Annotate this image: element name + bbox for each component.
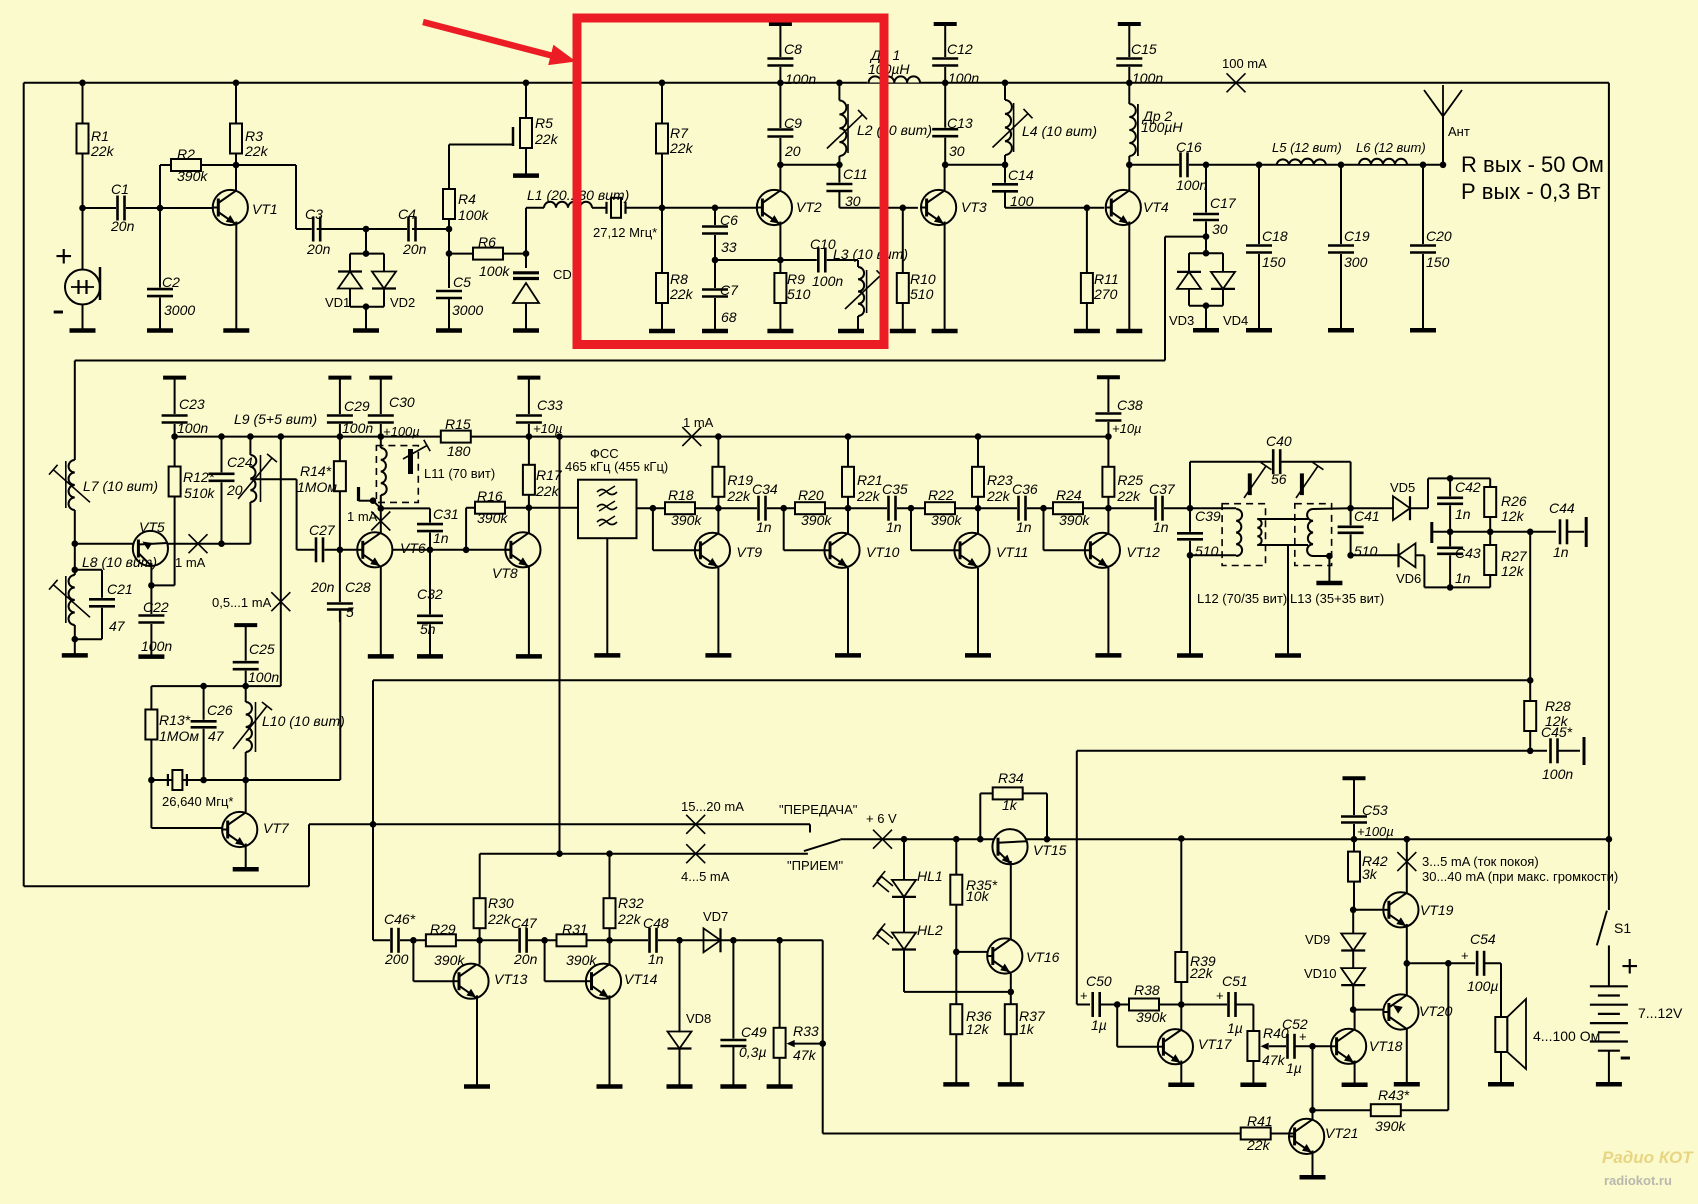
svg-text:HL1: HL1 <box>917 868 943 884</box>
svg-text:390k: 390k <box>671 512 702 528</box>
svg-text:15...20 mA: 15...20 mA <box>681 799 744 814</box>
svg-text:R34: R34 <box>998 770 1024 786</box>
svg-text:L10 (10 вит): L10 (10 вит) <box>262 713 345 729</box>
svg-text:22k: 22k <box>534 131 559 147</box>
svg-text:100µН: 100µН <box>868 61 910 77</box>
svg-text:465 кГц (455 кГц): 465 кГц (455 кГц) <box>565 459 668 474</box>
svg-text:C16: C16 <box>1176 139 1202 155</box>
svg-text:C17: C17 <box>1210 195 1237 211</box>
svg-text:100k: 100k <box>458 207 489 223</box>
svg-text:R6: R6 <box>478 234 496 250</box>
svg-text:L9 (5+5 вит): L9 (5+5 вит) <box>234 411 317 427</box>
svg-text:R7: R7 <box>670 125 689 141</box>
svg-text:R16: R16 <box>477 488 503 504</box>
svg-text:R9: R9 <box>787 271 805 287</box>
svg-text:100n: 100n <box>1132 70 1163 86</box>
svg-text:3000: 3000 <box>164 302 195 318</box>
svg-text:180: 180 <box>447 443 471 459</box>
svg-text:C47: C47 <box>511 915 538 931</box>
svg-text:VD5: VD5 <box>1390 480 1415 495</box>
svg-text:R1: R1 <box>91 128 109 144</box>
svg-text:R11: R11 <box>1094 271 1119 287</box>
svg-text:C3: C3 <box>305 206 323 222</box>
svg-text:390k: 390k <box>566 952 597 968</box>
svg-text:R33: R33 <box>793 1023 819 1039</box>
svg-text:+10µ: +10µ <box>533 421 563 436</box>
svg-text:3000: 3000 <box>452 302 483 318</box>
svg-text:R41: R41 <box>1247 1113 1273 1129</box>
svg-text:100n: 100n <box>342 420 373 436</box>
svg-text:+: + <box>1461 948 1469 963</box>
svg-text:C33: C33 <box>537 397 563 413</box>
svg-text:C6: C6 <box>720 212 738 228</box>
svg-text:20n: 20n <box>402 241 427 257</box>
svg-text:VD6: VD6 <box>1396 571 1421 586</box>
svg-text:C40: C40 <box>1266 433 1292 449</box>
svg-text:+: + <box>1080 988 1088 1003</box>
svg-text:R43*: R43* <box>1378 1087 1410 1103</box>
svg-text:R24: R24 <box>1056 487 1082 503</box>
svg-text:L4 (10 вит): L4 (10 вит) <box>1022 123 1097 139</box>
svg-text:27,12 Мгц*: 27,12 Мгц* <box>593 225 657 240</box>
svg-text:-: - <box>1619 1035 1632 1077</box>
svg-text:510: 510 <box>1354 543 1378 559</box>
svg-text:22k: 22k <box>535 483 560 499</box>
svg-text:VD8: VD8 <box>686 1011 711 1026</box>
svg-text:C7: C7 <box>720 282 739 298</box>
svg-text:390k: 390k <box>1375 1118 1406 1134</box>
svg-text:R5: R5 <box>535 115 553 131</box>
svg-text:+: + <box>55 240 73 273</box>
svg-text:390k: 390k <box>801 512 832 528</box>
svg-text:VT21: VT21 <box>1325 1125 1358 1141</box>
svg-text:0,5...1 mA: 0,5...1 mA <box>212 595 272 610</box>
svg-text:20n: 20n <box>310 579 335 595</box>
svg-text:22k: 22k <box>487 911 512 927</box>
svg-text:22k: 22k <box>1246 1137 1271 1153</box>
svg-text:12k: 12k <box>966 1021 990 1037</box>
svg-text:C46*: C46* <box>384 911 416 927</box>
svg-text:VT9: VT9 <box>736 544 762 560</box>
svg-text:C23: C23 <box>179 396 205 412</box>
svg-text:VD3: VD3 <box>1169 313 1194 328</box>
svg-text:5n: 5n <box>420 621 436 637</box>
svg-text:20: 20 <box>784 143 801 159</box>
svg-text:C41: C41 <box>1354 508 1380 524</box>
svg-text:radiokot.ru: radiokot.ru <box>1604 1173 1672 1188</box>
svg-text:R10: R10 <box>910 271 936 287</box>
svg-text:20n: 20n <box>513 951 538 967</box>
svg-text:VT2: VT2 <box>796 199 822 215</box>
svg-text:R19: R19 <box>727 472 753 488</box>
svg-text:L6 (12 вит): L6 (12 вит) <box>1356 140 1426 155</box>
svg-text:R21: R21 <box>857 472 883 488</box>
svg-text:R12*: R12* <box>183 469 215 485</box>
svg-text:20n: 20n <box>110 218 135 234</box>
svg-text:R22: R22 <box>928 487 954 503</box>
svg-text:VT10: VT10 <box>866 544 900 560</box>
svg-text:20n: 20n <box>306 241 331 257</box>
svg-text:22k: 22k <box>856 488 881 504</box>
svg-text:22k: 22k <box>1116 488 1141 504</box>
svg-text:VT7: VT7 <box>263 820 290 836</box>
svg-text:C11: C11 <box>843 166 868 182</box>
svg-text:Ант: Ант <box>1448 124 1470 139</box>
svg-text:26,640 Мгц*: 26,640 Мгц* <box>162 794 233 809</box>
svg-text:C8: C8 <box>784 41 802 57</box>
svg-text:L12 (70/35 вит): L12 (70/35 вит) <box>1197 591 1287 606</box>
svg-text:C19: C19 <box>1344 228 1370 244</box>
svg-text:1n: 1n <box>756 519 772 535</box>
svg-text:C31: C31 <box>433 506 459 522</box>
svg-text:1n: 1n <box>1553 544 1569 560</box>
svg-text:C20: C20 <box>1426 228 1452 244</box>
svg-text:C54: C54 <box>1470 931 1496 947</box>
svg-text:1µ: 1µ <box>1227 1020 1243 1036</box>
svg-text:1n: 1n <box>1016 519 1032 535</box>
svg-text:22k: 22k <box>726 488 751 504</box>
svg-text:L3 (10 вит): L3 (10 вит) <box>833 246 908 262</box>
svg-text:VT17: VT17 <box>1198 1036 1233 1052</box>
svg-text:C36: C36 <box>1012 481 1038 497</box>
svg-text:Радио КОТ: Радио КОТ <box>1602 1148 1694 1167</box>
svg-text:1 mA: 1 mA <box>347 509 378 524</box>
svg-text:1k: 1k <box>1019 1021 1035 1037</box>
svg-text:390k: 390k <box>477 510 508 526</box>
svg-text:22k: 22k <box>986 488 1011 504</box>
svg-text:100n: 100n <box>785 71 816 87</box>
svg-text:56: 56 <box>1271 471 1287 487</box>
svg-text:L11 (70 вит): L11 (70 вит) <box>424 466 495 481</box>
svg-text:"ПРИЕМ": "ПРИЕМ" <box>787 858 843 873</box>
svg-text:100n: 100n <box>812 273 843 289</box>
svg-text:3...5 mA (ток покоя): 3...5 mA (ток покоя) <box>1422 854 1539 869</box>
svg-text:R вых - 50 Ом: R вых - 50 Ом <box>1461 152 1604 177</box>
svg-text:68: 68 <box>721 309 737 325</box>
svg-text:C45*: C45* <box>1541 724 1573 740</box>
svg-text:47k: 47k <box>793 1047 817 1063</box>
svg-text:R31: R31 <box>562 921 588 937</box>
svg-text:C28: C28 <box>345 579 371 595</box>
svg-text:150: 150 <box>1262 254 1286 270</box>
svg-text:1МОм: 1МОм <box>159 728 199 744</box>
svg-text:C24: C24 <box>227 454 253 470</box>
svg-text:VD1: VD1 <box>325 295 350 310</box>
svg-text:R38: R38 <box>1134 982 1160 998</box>
svg-text:100n: 100n <box>948 70 979 86</box>
svg-text:R30: R30 <box>488 895 514 911</box>
svg-text:C2: C2 <box>162 274 180 290</box>
svg-text:C48: C48 <box>643 915 669 931</box>
svg-text:R18: R18 <box>668 487 694 503</box>
svg-text:100n: 100n <box>141 638 172 654</box>
svg-text:C44: C44 <box>1549 500 1575 516</box>
svg-text:390k: 390k <box>434 952 465 968</box>
svg-text:S1: S1 <box>1614 920 1631 936</box>
svg-text:1n: 1n <box>1455 570 1471 586</box>
svg-text:1n: 1n <box>433 530 449 546</box>
svg-text:C9: C9 <box>784 115 802 131</box>
svg-text:C14: C14 <box>1008 167 1034 183</box>
svg-text:R17: R17 <box>536 467 563 483</box>
svg-text:510k: 510k <box>184 485 215 501</box>
svg-text:100µН: 100µН <box>1141 119 1183 135</box>
svg-text:100n: 100n <box>248 669 279 685</box>
svg-text:C35: C35 <box>882 481 908 497</box>
svg-text:+: + <box>1299 1029 1307 1044</box>
svg-text:L13 (35+35 вит): L13 (35+35 вит) <box>1290 591 1384 606</box>
svg-text:390k: 390k <box>1136 1009 1167 1025</box>
svg-text:VT16: VT16 <box>1026 949 1060 965</box>
svg-text:C42: C42 <box>1455 479 1481 495</box>
svg-text:100µ: 100µ <box>1467 978 1498 994</box>
svg-text:VT15: VT15 <box>1033 842 1067 858</box>
svg-text:+: + <box>1621 950 1639 983</box>
svg-text:1n: 1n <box>886 519 902 535</box>
svg-text:100: 100 <box>1010 193 1034 209</box>
svg-text:1МОм: 1МОм <box>297 479 337 495</box>
svg-text:VT8: VT8 <box>492 565 518 581</box>
svg-text:R2: R2 <box>177 146 195 162</box>
svg-text:1n: 1n <box>1153 519 1169 535</box>
svg-text:C12: C12 <box>947 41 973 57</box>
svg-text:VT20: VT20 <box>1419 1003 1453 1019</box>
svg-text:510: 510 <box>1195 543 1219 559</box>
svg-text:C34: C34 <box>752 481 778 497</box>
svg-text:C29: C29 <box>344 398 370 414</box>
svg-text:C37: C37 <box>1149 481 1176 497</box>
svg-text:22k: 22k <box>617 911 642 927</box>
svg-text:47: 47 <box>109 618 126 634</box>
svg-text:30: 30 <box>949 143 965 159</box>
svg-text:R20: R20 <box>798 487 824 503</box>
svg-text:C53: C53 <box>1362 802 1388 818</box>
svg-text:390k: 390k <box>1059 512 1090 528</box>
svg-text:C39: C39 <box>1195 508 1221 524</box>
svg-text:C38: C38 <box>1117 397 1143 413</box>
svg-text:C18: C18 <box>1262 228 1288 244</box>
svg-text:VD2: VD2 <box>390 295 415 310</box>
svg-text:C21: C21 <box>107 581 133 597</box>
svg-text:47k: 47k <box>1262 1052 1286 1068</box>
svg-text:VT12: VT12 <box>1126 544 1160 560</box>
svg-text:R8: R8 <box>670 271 688 287</box>
svg-text:VT13: VT13 <box>494 971 528 987</box>
svg-text:VT1: VT1 <box>252 201 278 217</box>
svg-text:47: 47 <box>208 728 225 744</box>
svg-text:R27: R27 <box>1501 548 1528 564</box>
svg-text:VD7: VD7 <box>703 909 728 924</box>
svg-text:VT19: VT19 <box>1420 902 1454 918</box>
svg-text:R25: R25 <box>1117 472 1143 488</box>
svg-text:4...5 mA: 4...5 mA <box>681 869 730 884</box>
svg-text:R4: R4 <box>458 191 476 207</box>
svg-text:100n: 100n <box>1176 177 1207 193</box>
svg-text:R23: R23 <box>987 472 1013 488</box>
svg-text:R13*: R13* <box>159 712 191 728</box>
svg-text:22k: 22k <box>669 286 694 302</box>
svg-text:L2 (10 вит): L2 (10 вит) <box>857 122 932 138</box>
svg-text:C13: C13 <box>947 115 973 131</box>
svg-text:100n: 100n <box>1542 766 1573 782</box>
svg-text:12k: 12k <box>1501 508 1525 524</box>
svg-text:VT14: VT14 <box>624 971 658 987</box>
svg-text:R32: R32 <box>618 895 644 911</box>
svg-text:C15: C15 <box>1131 41 1157 57</box>
svg-text:+100µ: +100µ <box>383 424 420 439</box>
svg-text:4...100 Ом: 4...100 Ом <box>1533 1028 1600 1044</box>
svg-text:30...40 mA (при макс. громкост: 30...40 mA (при макс. громкости) <box>1422 869 1618 884</box>
svg-text:270: 270 <box>1093 286 1118 302</box>
svg-text:C32: C32 <box>417 586 443 602</box>
svg-text:R15: R15 <box>445 416 471 432</box>
svg-text:VD9: VD9 <box>1305 932 1330 947</box>
svg-text:100n: 100n <box>177 420 208 436</box>
svg-text:Р вых - 0,3 Вт: Р вых - 0,3 Вт <box>1461 179 1601 204</box>
svg-text:VT4: VT4 <box>1143 199 1169 215</box>
svg-text:390k: 390k <box>177 168 208 184</box>
svg-text:150: 150 <box>1426 254 1450 270</box>
svg-text:HL2: HL2 <box>917 922 943 938</box>
svg-text:100k: 100k <box>479 263 510 279</box>
svg-text:3k: 3k <box>1362 866 1378 882</box>
svg-text:30: 30 <box>1212 221 1228 237</box>
svg-text:+: + <box>1216 988 1224 1003</box>
svg-text:VT3: VT3 <box>961 199 987 215</box>
svg-text:R28: R28 <box>1545 698 1571 714</box>
svg-text:C27: C27 <box>309 522 336 538</box>
svg-text:390k: 390k <box>931 512 962 528</box>
svg-text:22k: 22k <box>90 143 115 159</box>
svg-text:33: 33 <box>721 239 737 255</box>
svg-text:22k: 22k <box>1189 965 1214 981</box>
svg-text:-: - <box>52 289 65 331</box>
svg-text:VD10: VD10 <box>1304 966 1337 981</box>
svg-text:1n: 1n <box>648 951 664 967</box>
svg-text:12k: 12k <box>1501 563 1525 579</box>
svg-text:100 mA: 100 mA <box>1222 56 1267 71</box>
svg-text:C5: C5 <box>453 274 471 290</box>
svg-text:C51: C51 <box>1222 973 1248 989</box>
svg-text:C4: C4 <box>398 206 416 222</box>
svg-text:10k: 10k <box>966 888 990 904</box>
svg-text:1 mA: 1 mA <box>683 415 714 430</box>
svg-text:"ПЕРЕДАЧА": "ПЕРЕДАЧА" <box>779 802 858 817</box>
svg-text:+ 6 V: + 6 V <box>866 811 897 826</box>
svg-text:C30: C30 <box>389 394 415 410</box>
svg-text:300: 300 <box>1344 254 1368 270</box>
svg-text:1 mA: 1 mA <box>175 555 206 570</box>
svg-text:C25: C25 <box>249 641 275 657</box>
svg-text:1µ: 1µ <box>1091 1017 1107 1033</box>
svg-text:22k: 22k <box>244 143 269 159</box>
svg-text:C50: C50 <box>1086 973 1112 989</box>
svg-text:C1: C1 <box>111 181 129 197</box>
svg-text:R3: R3 <box>245 128 263 144</box>
svg-text:VT18: VT18 <box>1369 1038 1403 1054</box>
svg-text:510: 510 <box>910 286 934 302</box>
svg-text:R14*: R14* <box>300 463 332 479</box>
svg-text:5: 5 <box>346 604 354 620</box>
svg-text:1k: 1k <box>1002 797 1018 813</box>
svg-text:0,3µ: 0,3µ <box>739 1044 767 1060</box>
svg-text:510: 510 <box>787 286 811 302</box>
svg-text:22k: 22k <box>669 140 694 156</box>
svg-text:1µ: 1µ <box>1286 1060 1302 1076</box>
svg-text:30: 30 <box>845 193 861 209</box>
svg-text:1n: 1n <box>1455 506 1471 522</box>
svg-text:L5 (12 вит): L5 (12 вит) <box>1272 140 1342 155</box>
svg-text:20: 20 <box>226 482 243 498</box>
svg-text:VT11: VT11 <box>996 544 1028 560</box>
svg-text:C43: C43 <box>1455 545 1481 561</box>
svg-text:C49: C49 <box>741 1024 767 1040</box>
svg-text:R26: R26 <box>1501 493 1527 509</box>
svg-text:VT6: VT6 <box>400 540 426 556</box>
svg-text:L8 (10 вит): L8 (10 вит) <box>82 554 157 570</box>
svg-text:+10µ: +10µ <box>1112 421 1142 436</box>
svg-text:C26: C26 <box>207 702 233 718</box>
svg-text:R29: R29 <box>430 921 456 937</box>
svg-text:C22: C22 <box>143 599 169 615</box>
svg-text:C10: C10 <box>810 236 836 252</box>
svg-text:VT5: VT5 <box>139 519 165 535</box>
svg-text:200: 200 <box>384 951 409 967</box>
svg-text:7...12V: 7...12V <box>1638 1005 1683 1021</box>
svg-text:L7 (10 вит): L7 (10 вит) <box>83 478 158 494</box>
svg-text:VD4: VD4 <box>1223 313 1248 328</box>
svg-text:+100µ: +100µ <box>1357 824 1394 839</box>
